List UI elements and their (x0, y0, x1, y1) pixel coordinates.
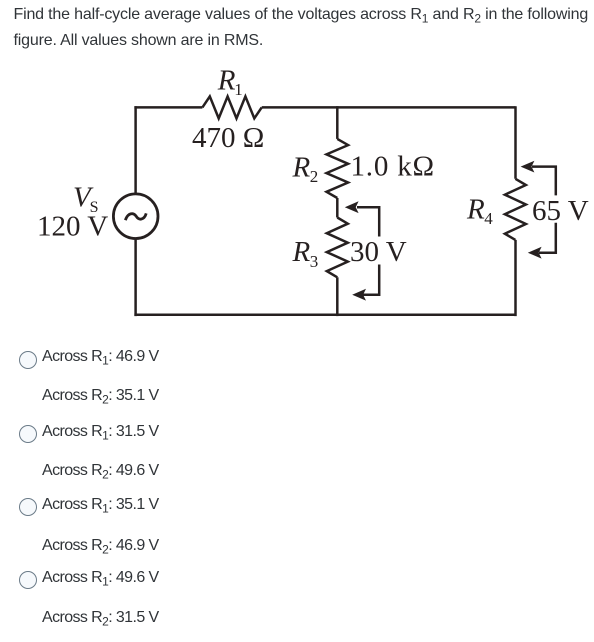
svg-text:R: R (466, 194, 485, 226)
svg-text:1.0 kΩ: 1.0 kΩ (351, 150, 435, 182)
source Vs sine tilde (125, 213, 146, 220)
65 V bracket shaft top (532, 167, 556, 196)
wire right branch lower (514, 240, 517, 316)
svg-text:1: 1 (234, 80, 243, 99)
svg-text:120 V: 120 V (37, 211, 108, 243)
65 V arrowhead top (521, 161, 535, 173)
value 30 V (350, 236, 407, 268)
30 V bracket shaft top (357, 207, 379, 236)
wire middle between R2 and R3 (336, 198, 339, 218)
svg-text:30 V: 30 V (350, 236, 407, 268)
wire left lower (134, 239, 137, 316)
wire right branch upper (514, 106, 517, 179)
65 V bracket shaft bottom (539, 223, 556, 253)
svg-text:470 Ω: 470 Ω (192, 122, 264, 154)
label Vs (73, 182, 99, 217)
30 V arrowhead bottom (352, 289, 366, 301)
65 V arrowhead bottom (528, 247, 542, 259)
svg-text:3: 3 (310, 252, 319, 271)
label R3 (292, 236, 319, 271)
resistor R4 (505, 179, 526, 240)
source Vs circle (113, 194, 158, 239)
wire left upper (134, 106, 137, 193)
wire bottom (134, 314, 515, 317)
svg-text:4: 4 (484, 209, 493, 228)
wire middle branch upper (336, 106, 339, 139)
label R4 (466, 194, 493, 228)
value 120 V (37, 211, 108, 243)
svg-text:2: 2 (310, 167, 319, 186)
svg-text:R: R (292, 236, 311, 268)
wire middle branch lower (336, 277, 339, 316)
30 V bracket shaft bottom (363, 265, 379, 295)
svg-text:R: R (292, 151, 311, 183)
svg-text:R: R (217, 65, 236, 97)
svg-text:65 V: 65 V (532, 195, 589, 227)
wire top-right segment (262, 106, 516, 109)
label R2 (292, 151, 319, 186)
30 V arrowhead top (345, 201, 359, 213)
wire top-left segment (134, 106, 202, 109)
resistor R1 (202, 96, 261, 118)
value 470 Ω (192, 122, 264, 154)
label R1 (217, 65, 243, 100)
resistor R2 (327, 139, 349, 198)
value 65 V (532, 195, 589, 227)
resistor R3 (327, 218, 348, 278)
value 1.0 kΩ (351, 150, 435, 182)
